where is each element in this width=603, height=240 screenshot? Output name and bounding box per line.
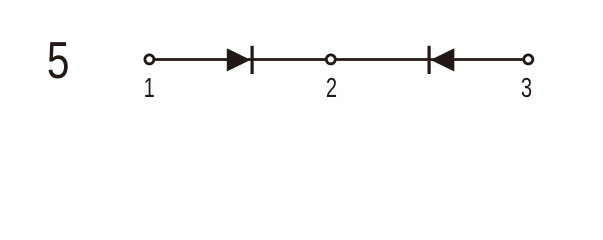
label "2" (terminal 2) <box>326 73 337 104</box>
wire (node 1 to node 3) <box>149 58 528 61</box>
svg-text:2: 2 <box>326 73 337 104</box>
node 1 (open terminal) <box>145 55 154 64</box>
svg-text:1: 1 <box>144 73 155 104</box>
label "5" (figure number) <box>47 31 70 89</box>
node 2 (open terminal) <box>326 55 335 64</box>
label "3" (terminal 3) <box>521 73 532 104</box>
svg-text:3: 3 <box>521 73 532 104</box>
diode D1 (anode at node 1, cathode toward node 2) <box>227 46 254 74</box>
label "1" (terminal 1) <box>144 73 155 104</box>
diode D2 (anode at node 3, cathode toward node 2) <box>428 46 455 74</box>
svg-text:5: 5 <box>47 31 70 89</box>
node 3 (open terminal) <box>524 55 533 64</box>
